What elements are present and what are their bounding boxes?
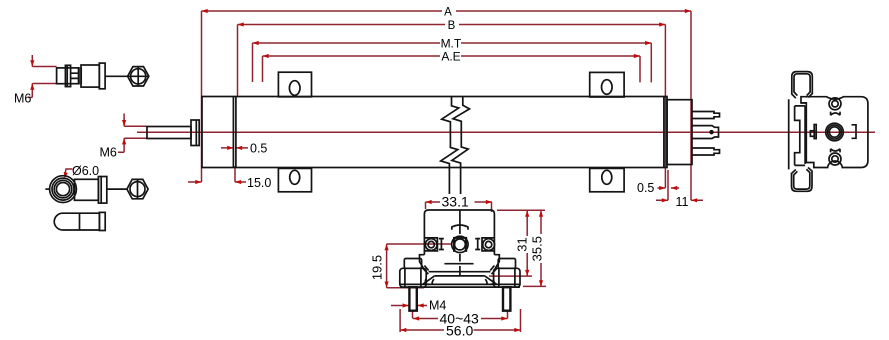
svg-text:Ø6.0: Ø6.0 bbox=[72, 164, 99, 178]
svg-text:M.T: M.T bbox=[441, 36, 462, 50]
svg-text:35.5: 35.5 bbox=[530, 236, 545, 261]
svg-text:M6: M6 bbox=[100, 146, 117, 160]
svg-text:31: 31 bbox=[515, 237, 530, 251]
svg-text:0.5: 0.5 bbox=[637, 181, 654, 195]
svg-text:0.5: 0.5 bbox=[250, 142, 267, 156]
svg-text:A.E: A.E bbox=[441, 50, 460, 64]
svg-text:33.1: 33.1 bbox=[442, 194, 469, 210]
svg-text:15.0: 15.0 bbox=[247, 176, 271, 190]
svg-text:B: B bbox=[448, 20, 456, 32]
svg-text:11: 11 bbox=[676, 195, 689, 209]
svg-text:56.0: 56.0 bbox=[446, 323, 473, 339]
svg-text:A: A bbox=[444, 6, 452, 18]
svg-text:M6: M6 bbox=[14, 91, 31, 105]
svg-text:19.5: 19.5 bbox=[370, 255, 385, 280]
